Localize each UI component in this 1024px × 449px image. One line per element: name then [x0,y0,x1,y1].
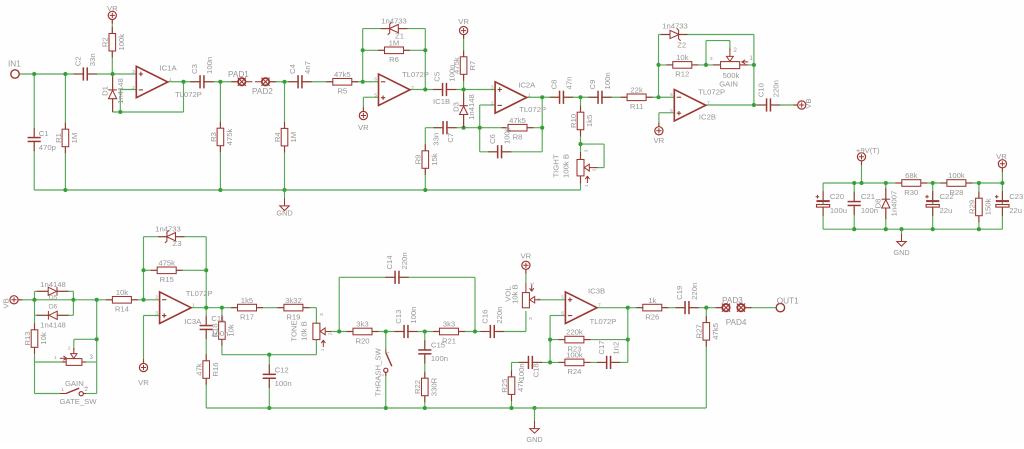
svg-text:VR: VR [107,4,118,13]
svg-text:100n: 100n [205,57,214,74]
junction at 706,64.9 [704,63,708,67]
resistor R4 [284,122,286,129]
resistor R7 [463,50,465,57]
svg-text:PAD2: PAD2 [252,87,273,96]
svg-text:5: 5 [374,93,377,99]
svg-text:10k B: 10k B [300,321,309,341]
resistor R15 [151,269,158,271]
junction at 475,331.5 [473,329,477,333]
svg-text:10k: 10k [227,324,236,337]
svg-text:475k: 475k [158,258,175,267]
svg-text:IN1: IN1 [8,60,21,69]
output pin OUT1 [776,303,784,311]
resistor R14 [106,299,113,301]
potentiometer TIGHT 100k B [577,160,584,176]
wire: C7 row [425,127,542,129]
capacitor C11 [200,326,213,328]
svg-text:D6: D6 [49,304,58,311]
wire: left vertical IC2B loop [658,35,660,98]
svg-text:GND: GND [893,248,909,257]
junction at 627.8,339.6 [626,338,630,342]
junction at 479.7,127.7 [478,126,482,130]
supply VR (power) [998,160,1006,172]
supply VR (IC2B bias) [655,123,663,135]
svg-text:100n: 100n [517,363,526,380]
svg-text:1n4148: 1n4148 [40,280,66,289]
svg-text:R20: R20 [355,336,369,345]
wire: IC1A output to C3 to R3 node [168,81,242,83]
power bottom rail [823,228,1002,230]
polarized capacitor C23 [996,200,1009,202]
svg-text:IC3B: IC3B [588,286,605,295]
junction at 269.3,354.7 [267,353,271,357]
resistor R25 [511,370,513,377]
wire: C1 branch down to ground rail [33,74,35,190]
capacitor C4 [299,75,301,88]
junction at 96.7,339.3 [95,337,99,341]
wire: diode pair right vertical [72,291,74,315]
pad PAD3 [716,307,723,309]
wire: TONE wiper row [330,331,353,333]
wire: C16 jog to VOL pot [475,331,486,333]
junction at 753.9,105 [752,103,756,107]
svg-text:22u: 22u [1009,206,1022,215]
wire input net [19,73,136,75]
svg-text:100n: 100n [275,379,292,388]
svg-text:2: 2 [591,168,597,171]
wire: IC1A inverting input [119,90,121,113]
capacitor C3 [201,75,203,88]
svg-text:TONE: TONE [290,320,299,341]
svg-text:1: 1 [169,77,172,83]
svg-text:2: 2 [491,100,494,106]
junction at 362.7,50.3 [361,48,365,52]
svg-text:2: 2 [68,345,71,351]
svg-text:1: 1 [54,355,57,361]
resistor R5 [326,81,333,83]
diode D5 [37,290,49,292]
svg-text:1: 1 [385,351,391,354]
svg-text:THRASH_SW: THRASH_SW [373,347,382,396]
capacitor C19 [686,301,688,314]
power top rail [823,182,902,184]
svg-text:C4: C4 [288,63,297,74]
junction at 1002.4,183 [1000,181,1004,185]
ground rail top section [34,189,580,191]
svg-text:10k: 10k [39,332,48,345]
svg-text:3k32: 3k32 [285,296,302,305]
junction at 385.8,408 [384,406,388,410]
svg-text:D1: D1 [100,86,109,96]
wire: C15 R22 branch [424,332,426,409]
supply VR (R7) [460,27,468,39]
junction at 706.3,307.65 [704,306,708,310]
svg-text:1n4007: 1n4007 [889,191,898,217]
svg-text:10k: 10k [676,53,689,62]
junction at 542.2,127.7 [540,126,544,130]
junction at 627.8,307.65 [626,306,630,310]
zener diode Z3 [158,236,167,238]
supply VB output node [793,101,805,109]
wire: D6 branch [35,314,74,316]
wire: feedback right vertical [627,308,629,363]
svg-text:33n: 33n [432,133,441,146]
wire: IC2B output to C10 to VB [706,104,798,106]
resistor R13 [34,323,36,330]
capacitor C10 [767,98,769,111]
svg-text:100k: 100k [566,351,583,360]
wire: R12 GAIN row [659,64,754,66]
switch THRASH_SW [385,349,387,353]
svg-text:TL072P: TL072P [519,105,546,114]
junction at 65.4,74 [63,72,67,76]
input pin IN1 [11,70,19,78]
svg-text:1k5: 1k5 [241,296,253,305]
wire: right vertical IC2B loop [753,35,755,106]
junction at 854.2,229.2 [852,227,856,231]
junction at 978.9,183 [977,181,981,185]
wire: IC1A feedback bottom [113,111,184,113]
svg-text:C14: C14 [385,255,394,270]
svg-text:C22: C22 [940,192,954,201]
junction at 885.8,183 [884,181,888,185]
svg-text:TIGHT: TIGHT [551,154,560,177]
svg-text:100n: 100n [431,354,448,363]
svg-text:470p: 470p [39,143,56,152]
svg-text:47k5: 47k5 [334,70,351,79]
svg-text:7: 7 [598,303,601,309]
supply VR (IC1B bias) [359,107,367,119]
supply VR (IC3A bias) [139,359,147,371]
wire: GAIN wiper loop [705,41,707,65]
wire: D1 branch [112,74,114,112]
svg-text:6: 6 [561,311,564,317]
svg-text:R3: R3 [209,132,218,142]
svg-text:R10: R10 [569,114,578,128]
svg-text:R22: R22 [413,380,422,394]
svg-text:IC1B: IC1B [433,97,450,106]
svg-text:6: 6 [374,77,377,83]
svg-text:1n4148: 1n4148 [467,94,476,120]
svg-text:D8: D8 [874,199,883,209]
svg-text:R19: R19 [286,312,300,321]
wire: VR to IC2B noninverting input [658,113,660,127]
svg-text:47k5: 47k5 [509,116,526,125]
svg-text:500k: 500k [723,71,740,80]
resistor R23 [558,339,565,341]
wire: R25 branch [511,362,513,408]
svg-text:10k: 10k [116,288,129,297]
svg-text:100u: 100u [830,206,847,215]
svg-text:1n4733: 1n4733 [155,225,181,234]
svg-text:220n: 220n [400,252,409,269]
junction at 854.2,183 [852,181,856,185]
resistor R2 [111,27,113,34]
svg-text:R24: R24 [567,367,582,376]
junction at 220.4,81.75 [218,80,222,84]
resistor R21 [433,331,440,333]
wire: C12 branch [268,355,270,408]
polarized capacitor C20 [817,200,830,202]
wire: Z2 top loop [659,34,754,36]
wire: TONE bottom to C12 row [315,339,317,354]
svg-text:6: 6 [670,92,673,98]
junction at 362.7,81.75 [361,80,365,84]
svg-text:1: 1 [584,184,590,187]
svg-text:TL072P: TL072P [698,88,725,97]
svg-text:C3: C3 [190,64,199,74]
junction at 284.5,190 [282,188,286,192]
svg-text:C16: C16 [481,310,490,324]
svg-text:3: 3 [528,317,534,320]
junction at 932.7,183 [931,181,935,185]
svg-text:100p: 100p [503,127,512,144]
svg-text:TL072P: TL072P [590,317,617,326]
zener diode Z2 [661,34,670,36]
svg-text:R29: R29 [967,200,976,214]
svg-text:R26: R26 [645,312,659,321]
junction at 34.5,299.8 [32,298,36,302]
capacitor C8 [560,91,562,104]
svg-text:2: 2 [537,298,543,301]
svg-text:R17: R17 [240,312,254,321]
svg-text:5: 5 [670,108,673,114]
junction at 511.5,408 [509,406,513,410]
svg-text:220n: 220n [690,283,699,300]
resistor R27 [705,316,707,323]
svg-text:+9V(T): +9V(T) [856,146,880,155]
resistor R11 [621,96,628,98]
svg-text:PAD4: PAD4 [726,318,747,327]
resistor R20 [347,331,354,333]
svg-text:PAD1: PAD1 [228,70,249,79]
trimmer GAIN_ [66,359,82,366]
svg-text:OUT1: OUT1 [777,296,799,305]
wire: Z3 loop top [144,236,207,238]
resistor R24 [558,361,565,363]
resistor R19 [277,307,284,309]
svg-text:22u: 22u [940,206,953,215]
svg-text:1M: 1M [389,38,400,47]
wire: gate switch row [35,393,61,395]
junction at 580.5,97.25 [578,95,582,99]
svg-text:4n7: 4n7 [303,61,312,74]
ground [530,408,539,433]
junction at 425.3,50.3 [423,48,427,52]
pad PAD4 [745,307,752,309]
svg-text:TL072P: TL072P [175,90,202,99]
svg-text:VR: VR [654,136,665,145]
svg-text:D3: D3 [451,102,460,112]
svg-text:3k3: 3k3 [443,320,455,329]
svg-text:C18: C18 [532,363,541,377]
resistor R1 [64,123,66,130]
svg-text:R27: R27 [695,324,704,338]
svg-text:C5: C5 [433,72,442,82]
wire: IC3A output row [191,307,237,309]
svg-text:3: 3 [491,84,494,90]
op-amp IC3A TL072P [160,292,192,324]
wire: +9V drop [861,161,863,183]
wire: R7 branch [463,35,465,90]
wire: TIGHT pot to rail [580,144,582,190]
svg-text:475k: 475k [225,129,234,146]
op-amp IC1B TL072P [379,74,411,106]
svg-text:C11: C11 [211,314,225,323]
switch GATE_SW [60,393,66,395]
svg-text:IC2B: IC2B [699,113,716,122]
wire: VB input to diode pair [18,299,159,301]
diode D3 [463,92,465,105]
supply VR (VOL) [522,261,530,273]
wire: THRASH_SW branch [385,332,387,350]
wire: left vertical IC3A loop [143,237,145,300]
svg-text:1n4733: 1n4733 [662,21,688,30]
svg-text:3: 3 [319,313,325,316]
wire: R6 loop [363,49,426,51]
svg-text:15k: 15k [430,153,439,166]
resistor R12 [666,64,673,66]
wire: trim row [35,361,67,363]
wire: IC3B inverting input [550,315,565,317]
junction at 885.8,229.2 [884,227,888,231]
junction at 753.9,64.9 [752,63,756,67]
capacitor C1 [28,138,41,140]
bottom ground rail [206,407,706,409]
svg-text:3k3: 3k3 [356,320,368,329]
svg-text:C8: C8 [550,80,559,90]
svg-text:TL072P: TL072P [402,70,429,79]
wire: R9 branch [424,128,426,190]
wire: right vertical gate [96,300,98,394]
pad PAD1 [231,81,238,83]
wire: VR to VOL pot [525,270,527,283]
wire: wiper loop GAIN_ trim [73,339,75,350]
junction at 206.2,307.65 [204,306,208,310]
wire: IC1B output to C5 to IC2A [410,89,495,91]
wire: C22 branch [932,183,934,229]
wire: R18 branch [221,308,223,355]
svg-text:C10: C10 [757,83,766,97]
junction at 463.6,127.7 [462,126,466,130]
svg-text:1n4148: 1n4148 [40,321,66,330]
junction at 120.3,112 [118,110,122,114]
capacitor C21 [848,202,861,204]
svg-text:C12: C12 [275,365,289,374]
svg-text:7: 7 [411,85,414,91]
wire: C14 loop [338,277,340,331]
svg-text:100k: 100k [948,171,965,180]
svg-text:C17: C17 [597,340,606,354]
svg-text:22k: 22k [630,85,643,94]
junction at 425.3,89.5 [423,87,427,91]
svg-text:C19: C19 [675,286,684,300]
svg-text:1: 1 [192,303,195,309]
pad PAD2 [255,81,262,83]
svg-text:R16: R16 [211,362,220,376]
resistor R6 [378,49,385,51]
resistor R28 [940,182,947,184]
svg-text:100n: 100n [603,72,612,89]
svg-text:7: 7 [707,100,710,106]
svg-text:68k: 68k [905,171,918,180]
wire: C6 loop bottom [480,151,543,153]
svg-text:1: 1 [320,348,326,351]
svg-text:IC2A: IC2A [518,80,536,89]
junction at 932.7,229.2 [931,227,935,231]
svg-text:IC3A: IC3A [184,317,202,326]
junction at 901.5,229.2 [899,227,903,231]
wire: TIGHT pot wiper loop [581,143,605,145]
wire: PAD2 to C4 to R5 to IC1B [266,81,379,83]
wire: R27 branch [705,308,707,408]
diode D8 [885,188,887,199]
junction at 978.9,229.2 [977,227,981,231]
junction at 269.3,408 [267,406,271,410]
resistor R29 [978,192,980,199]
svg-text:D5: D5 [49,294,58,301]
svg-text:1k5: 1k5 [585,115,594,127]
resistor R3 [219,122,221,129]
svg-text:100n: 100n [409,307,418,324]
capacitor C18 [529,356,531,369]
polarized capacitor C22 [926,200,939,202]
capacitor C15 [418,351,431,353]
junction at 183.5,81.75 [181,80,185,84]
capacitor C17 [607,356,609,369]
svg-text:3: 3 [710,56,713,62]
junction at 385.8,331.5 [384,329,388,333]
svg-text:VB: VB [1,298,10,308]
junction at 143.5,299.8 [141,298,145,302]
potentiometer VOL 10k B [522,293,529,308]
wire: R4/GND branch [284,82,286,190]
svg-text:GND: GND [276,208,292,217]
svg-text:VR: VR [521,252,532,261]
wire: R29 branch [978,183,980,229]
junction at 550.1,362.4 [548,360,552,364]
junction at 96.7,299.8 [95,298,99,302]
svg-text:3: 3 [155,311,158,317]
svg-text:C15: C15 [431,341,445,350]
wire: IC2A output through C8 C9 R11 to IC2B [527,96,675,98]
diode D6 [57,314,68,316]
svg-text:R5: R5 [337,87,347,96]
svg-text:C6: C6 [488,134,497,144]
wire: D8 branch [885,183,887,229]
svg-text:R8: R8 [513,133,523,142]
wire: C20 branch [822,183,824,229]
capacitor C2 [84,67,86,80]
svg-text:R30: R30 [904,188,918,197]
svg-text:R13: R13 [23,331,32,345]
junction at 424.8,331.5 [423,329,427,333]
wire: left vertical of IC1B loop [362,29,364,82]
svg-text:R6: R6 [389,55,399,64]
svg-text:220n: 220n [771,80,780,97]
wire: right vertical of IC1B loop [424,29,426,90]
svg-text:R2: R2 [101,37,110,47]
svg-text:1: 1 [528,93,531,99]
svg-text:R12: R12 [675,70,689,79]
wire: R1 branch [64,74,66,190]
svg-text:150k: 150k [984,198,993,215]
capacitor C12 [263,375,276,377]
resistor R30 [895,182,902,184]
wire: VR to IC1B noninverting input [362,97,364,111]
capacitor C6 [498,145,500,158]
svg-text:47k: 47k [195,363,204,376]
